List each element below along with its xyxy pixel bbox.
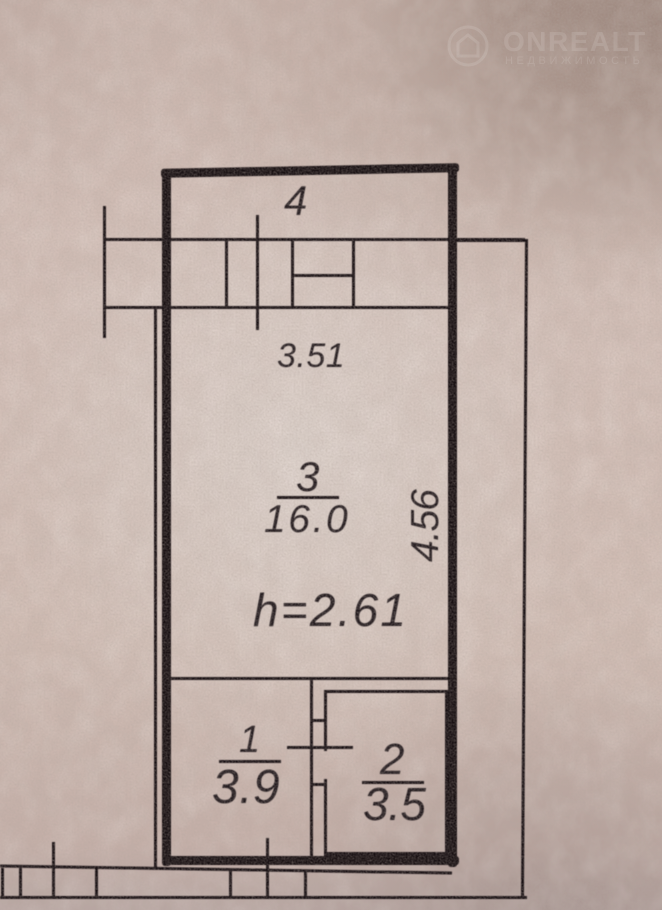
- window band top line: [104, 238, 525, 241]
- room2 top wall: [324, 690, 452, 693]
- corridor tick 1: [1, 868, 4, 898]
- dimension 4.56 (rotated): [406, 490, 445, 562]
- corridor tick 3: [95, 868, 98, 898]
- wall right (thick exterior): [448, 167, 457, 867]
- entry door tick: [266, 838, 269, 898]
- partition rooms 1/2 inner lower (room2 left wall, door gap): [324, 779, 327, 858]
- window mid line: [292, 274, 354, 277]
- room 3 fraction line: [277, 496, 339, 499]
- partition tick lower: [310, 783, 327, 786]
- room 1 fraction line: [219, 760, 281, 763]
- partition tick upper: [310, 719, 327, 722]
- watermark logo ONREALT: [440, 18, 662, 74]
- room2 bottom line: [324, 852, 452, 856]
- corridor upper line: [0, 864, 452, 874]
- band left outer vertical: [103, 206, 106, 338]
- band divider d: [352, 239, 355, 309]
- height note h=2.61: [253, 587, 408, 633]
- room 1 area 3.9: [212, 764, 280, 812]
- wall left (thick exterior): [162, 169, 171, 866]
- door line rooms 1/2: [287, 746, 353, 749]
- corridor tick 2: [19, 868, 22, 898]
- corridor top connector: [455, 239, 525, 242]
- left neighbour wall vertical: [154, 308, 157, 869]
- partition rooms 1/2 inner upper (room2 left wall): [324, 690, 327, 751]
- corridor lower line: [0, 896, 527, 899]
- label 4 (balcony number): [284, 180, 307, 222]
- room 2 area 3.5: [363, 781, 425, 827]
- band divider b (long): [256, 215, 259, 330]
- left long tick: [52, 842, 55, 898]
- window band bottom line: [104, 306, 452, 309]
- wall top (thick exterior): [161, 163, 459, 178]
- band divider a: [225, 239, 228, 309]
- dimension 3.51: [277, 339, 345, 373]
- room 2 number: [380, 738, 404, 782]
- corridor right vertical: [521, 239, 528, 898]
- room 3 area 16.0: [264, 500, 350, 539]
- wall bottom (thick exterior): [163, 856, 459, 865]
- room 1 number: [239, 721, 260, 759]
- band divider c: [291, 239, 294, 309]
- room 3 number: [296, 456, 319, 498]
- partition rooms 1/2 outer: [310, 678, 313, 858]
- room2 right wall: [445, 690, 448, 858]
- corridor tick 5: [304, 870, 307, 898]
- corridor tick 4: [229, 870, 232, 898]
- room 2 fraction line: [362, 781, 424, 784]
- partition room3 / rooms 1-2: [171, 677, 448, 680]
